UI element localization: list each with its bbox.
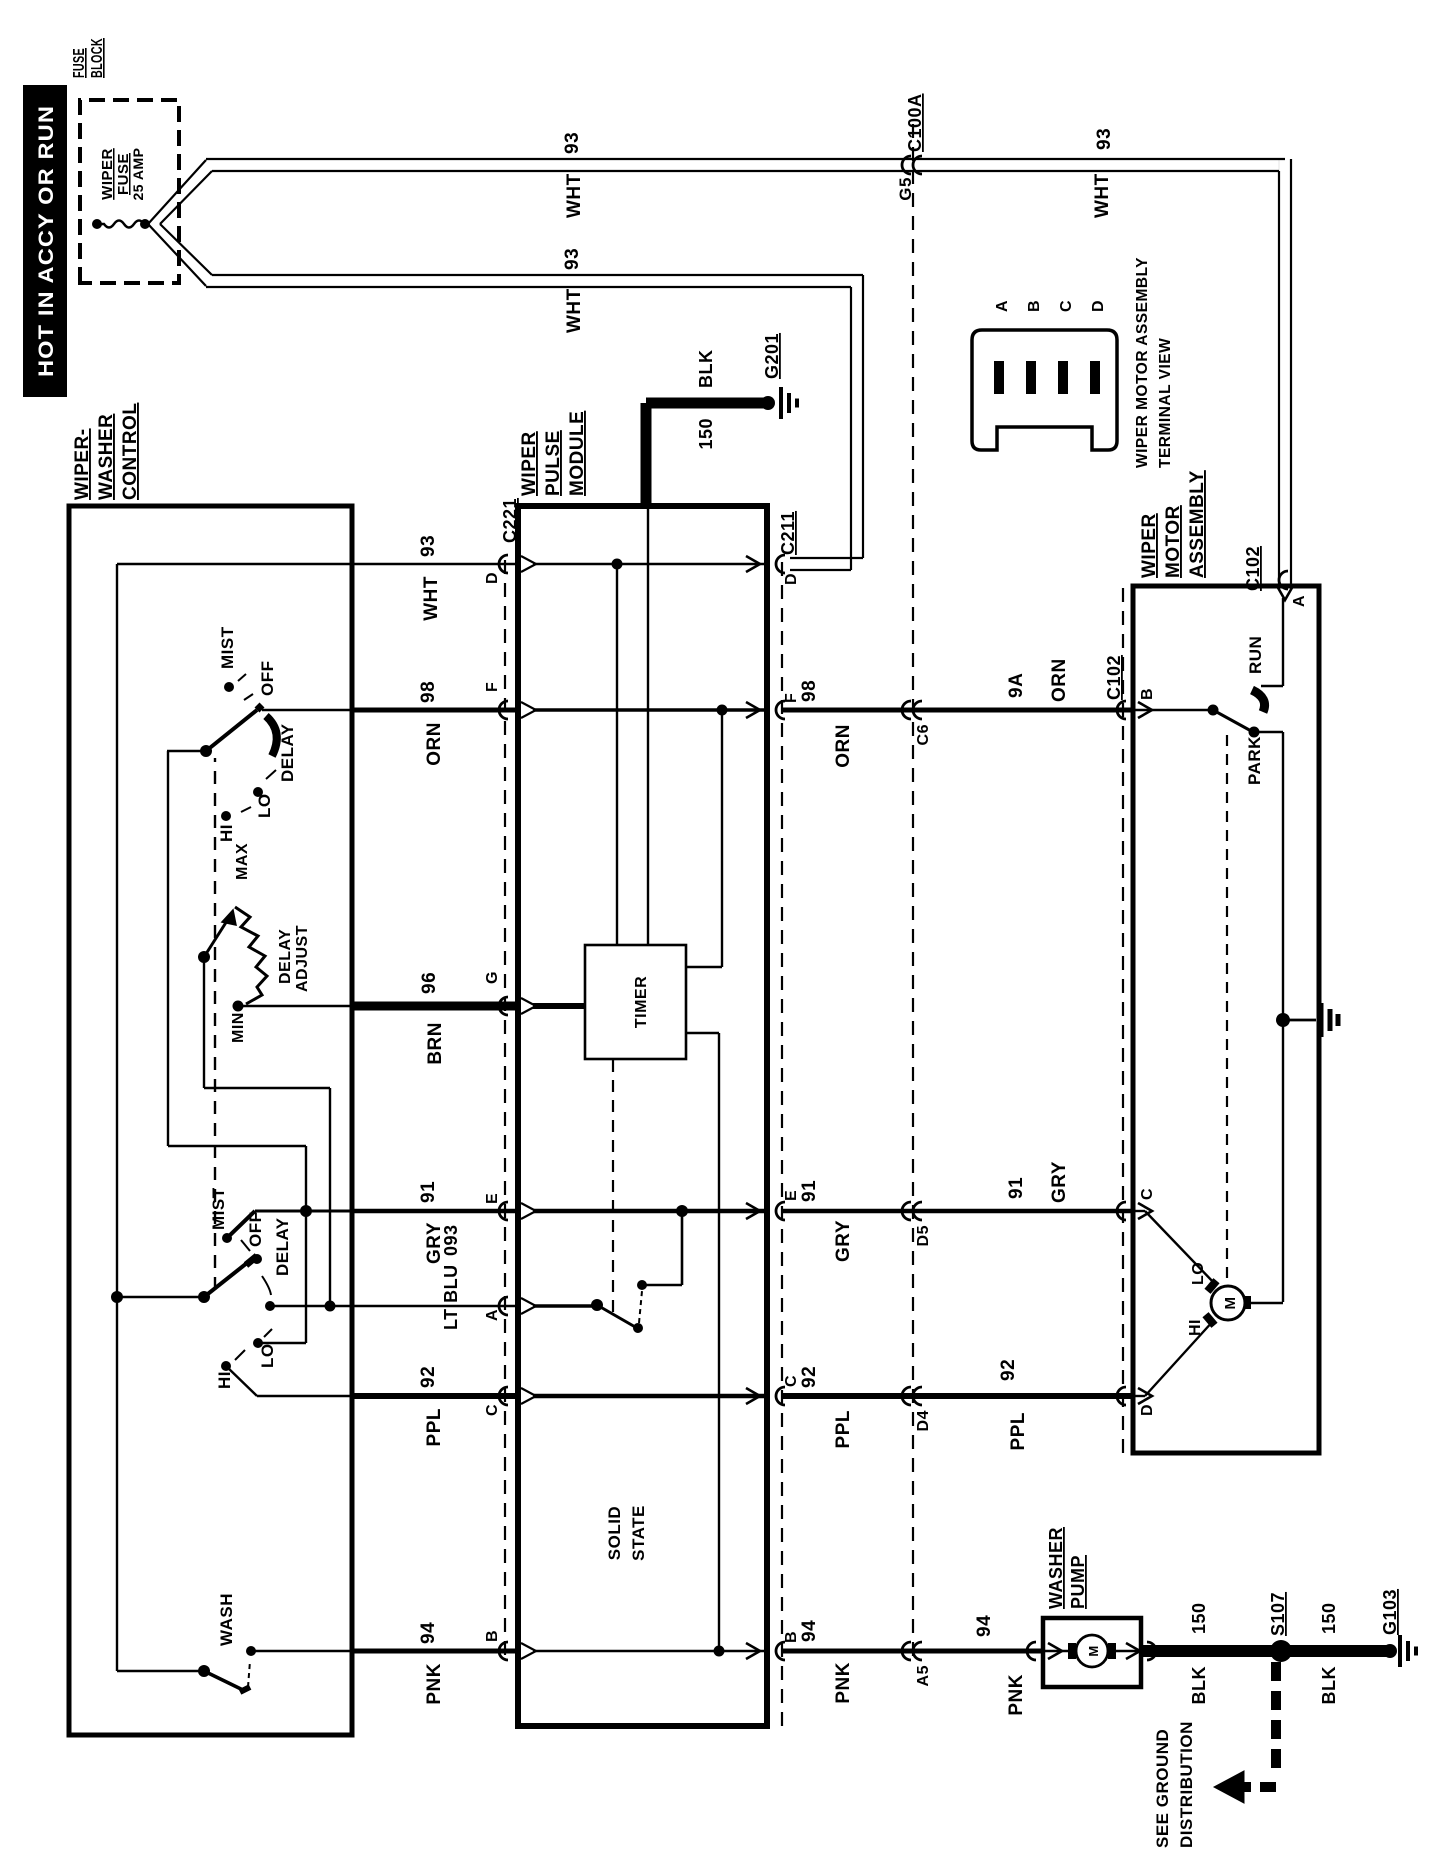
svg-text:G103: G103 (1380, 1589, 1400, 1635)
connector C100A terminal D5 (902, 1202, 932, 1246)
splice S107 (1268, 1592, 1292, 1662)
svg-text:SEE GROUND: SEE GROUND (1153, 1729, 1172, 1848)
svg-text:91: 91 (418, 1181, 439, 1203)
svg-text:ADJUST: ADJUST (294, 925, 311, 992)
switch S3 washer (198, 1593, 256, 1692)
svg-text:D: D (783, 573, 800, 585)
svg-text:C: C (1058, 300, 1075, 312)
svg-text:M: M (1222, 1297, 1239, 1310)
wire S2 MIST/LO to E output (255, 1146, 352, 1343)
svg-text:WHT: WHT (1092, 173, 1113, 218)
svg-text:PPL: PPL (833, 1410, 854, 1448)
switch S1 arm to OFF contact (206, 705, 262, 751)
connector C221 terminal A (484, 1297, 508, 1321)
connector C100A on WHT wire (G5) (896, 156, 922, 201)
switch S1 contact OFF label (244, 661, 277, 701)
terminal view slot letters (994, 300, 1107, 312)
svg-text:93: 93 (562, 132, 583, 154)
svg-text:BLK: BLK (1189, 1666, 1209, 1705)
terminal view slots A B C D (994, 361, 1100, 394)
node junction on feed bus for wiper switch (111, 1291, 204, 1303)
resistor R1 DELAY ADJUST (233, 907, 268, 1012)
svg-text:LO: LO (1190, 1262, 1207, 1285)
label 94 PNK lower (974, 1615, 1027, 1716)
connector C221 terminal C (484, 1387, 508, 1416)
connector C221 terminal E (484, 1193, 508, 1220)
svg-text:D5: D5 (915, 1225, 932, 1246)
svg-text:WASHER: WASHER (1046, 1527, 1066, 1609)
timer U1 (585, 945, 686, 1059)
svg-text:150: 150 (696, 418, 716, 450)
svg-text:PUMP: PUMP (1068, 1555, 1088, 1609)
fuse block dashed box (80, 100, 179, 283)
svg-text:DISTRIBUTION: DISTRIBUTION (1177, 1721, 1196, 1848)
label SOLID STATE (605, 1505, 648, 1561)
connector C102 terminal B (1117, 688, 1156, 719)
module input triangles (521, 556, 536, 1659)
wire 93 WHT feed to pulse module D via C211 (206, 275, 863, 570)
svg-text:C6: C6 (915, 724, 932, 745)
fuse F1 WIPER FUSE (92, 219, 150, 229)
wire 96 BRN control to module G (352, 1002, 518, 1011)
svg-text:98: 98 (418, 681, 439, 703)
svg-text:DELAY: DELAY (273, 1217, 292, 1276)
park switch PARK contact wire (1254, 732, 1283, 1302)
label WASHER PUMP (1046, 1527, 1088, 1609)
svg-text:CONTROL: CONTROL (120, 403, 141, 500)
svg-text:S107: S107 (1268, 1592, 1288, 1636)
label DELAY ADJUST (277, 925, 311, 992)
svg-text:MIST: MIST (218, 626, 237, 669)
wire 92 PPL control to module C (352, 1393, 518, 1399)
label GRY 91 (418, 1181, 445, 1264)
svg-text:WHT: WHT (564, 173, 585, 218)
label LT BLU 093 (441, 1224, 461, 1330)
label 98 ORN (799, 680, 854, 768)
svg-text:BLK: BLK (696, 350, 716, 389)
wire S2 HI to C output (226, 1366, 352, 1396)
module internal A net relay (533, 1291, 643, 1333)
svg-text:150: 150 (1189, 1602, 1209, 1634)
wire S3 WASH to B output (251, 1650, 352, 1652)
svg-text:150: 150 (1319, 1602, 1339, 1634)
label WIPER MOTOR ASSEMBLY TERMINAL VIEW (1134, 257, 1174, 468)
switch S1 contact DELAY (253, 723, 297, 797)
svg-text:MOTOR: MOTOR (1163, 505, 1184, 578)
svg-text:DELAY: DELAY (277, 929, 294, 984)
switch S2 contact LO (253, 1329, 277, 1368)
washer pump output connector arc (1147, 1642, 1156, 1660)
svg-text:92: 92 (998, 1359, 1019, 1381)
svg-text:SOLID: SOLID (605, 1506, 624, 1560)
label 92 PPL lower (998, 1359, 1029, 1451)
wire R1 wiper to DELAY contact of S2 (204, 957, 330, 1306)
svg-text:OFF: OFF (258, 661, 277, 697)
label 92 PPL (799, 1366, 854, 1449)
wire 150 BLK S107 to G103 (1281, 1645, 1390, 1657)
svg-text:C: C (1139, 1188, 1156, 1200)
svg-text:093: 093 (441, 1224, 461, 1256)
module internal B net (533, 1643, 764, 1659)
svg-text:WIPER: WIPER (519, 431, 540, 496)
banner HOT IN ACCY OR RUN (23, 85, 67, 397)
module internal E net (533, 1203, 764, 1290)
svg-text:91: 91 (799, 1180, 820, 1202)
label WHT 93 (418, 535, 442, 621)
svg-text:94: 94 (418, 1622, 439, 1644)
svg-text:92: 92 (799, 1366, 820, 1388)
svg-text:WIPER MOTOR ASSEMBLY: WIPER MOTOR ASSEMBLY (1134, 257, 1151, 468)
svg-text:WHT: WHT (421, 576, 442, 621)
svg-text:PULSE: PULSE (543, 430, 564, 496)
motor A feed wire inside (1261, 586, 1293, 686)
park switch RUN contact (1246, 636, 1265, 712)
svg-text:92: 92 (418, 1366, 439, 1388)
label ORN 98 (418, 681, 445, 766)
label 91 GRY lower (1006, 1161, 1070, 1203)
svg-text:C: C (783, 1375, 800, 1387)
module internal C net (533, 1388, 764, 1404)
connector C102 dashed line (1122, 586, 1124, 1453)
module timer drive wire to B (686, 1033, 719, 1651)
svg-text:WIPER-: WIPER- (72, 428, 93, 500)
wire 92 PPL module to C100A (782, 1393, 913, 1399)
wire OFF contact to F output (262, 709, 352, 711)
wire 92 PPL C100A to motor D (913, 1393, 1133, 1399)
wiper motor assembly box (1133, 586, 1319, 1453)
module wire timer to module edge (BLK) (647, 506, 649, 945)
connector C211 terminal B (776, 1631, 800, 1660)
connector C221 terminal F (484, 682, 508, 719)
switch S2 contact DELAY (262, 1217, 292, 1311)
connector C211 terminal C (776, 1375, 800, 1405)
svg-text:E: E (484, 1193, 501, 1204)
svg-text:MODULE: MODULE (567, 411, 588, 496)
motor M1 wiper motor (1202, 1278, 1283, 1328)
switch S2 contact OFF (241, 1212, 265, 1265)
svg-text:E: E (783, 1190, 800, 1201)
svg-text:LO: LO (255, 793, 274, 818)
svg-text:A5: A5 (915, 1665, 932, 1686)
washer pump box (1043, 1618, 1141, 1687)
switch S1 contact HI (217, 824, 236, 842)
svg-text:GRY: GRY (1049, 1161, 1070, 1203)
svg-text:PNK: PNK (833, 1662, 854, 1704)
svg-text:A: A (484, 1309, 501, 1321)
svg-text:M: M (1086, 1645, 1101, 1656)
label 150 BLK lower (1319, 1602, 1339, 1704)
svg-text:D4: D4 (915, 1410, 932, 1431)
svg-text:98: 98 (799, 680, 820, 702)
ground motor case (1321, 1003, 1338, 1037)
wire 91 GRY module to C100A (782, 1209, 913, 1214)
svg-text:A: A (1291, 595, 1308, 607)
label 9A ORN (1006, 658, 1070, 702)
label 150 BLK upper (1189, 1602, 1209, 1704)
svg-text:GRY: GRY (833, 1220, 854, 1262)
svg-text:RUN: RUN (1246, 636, 1265, 674)
module relay dashed link to timer (612, 1059, 614, 1312)
switch S1 wiper mode (upper) pivot (167, 745, 306, 1146)
svg-text:WHT: WHT (564, 288, 585, 333)
label WIPER MOTOR ASSEMBLY (1139, 470, 1208, 578)
connector C221 terminal D (484, 555, 508, 584)
wire 94 PNK control to module B (352, 1649, 518, 1654)
connector C100A terminal A5 (902, 1642, 932, 1686)
connector C102 terminal A (1243, 546, 1308, 607)
svg-text:G: G (484, 971, 501, 984)
label 91 GRY (799, 1180, 854, 1262)
wire 94 PNK module to C100A (782, 1649, 913, 1654)
motor D wire to HI brush (1133, 1320, 1214, 1404)
switch S2 contact HI (215, 1350, 245, 1389)
svg-text:MIST: MIST (209, 1187, 228, 1230)
connector C102 terminal D (1117, 1387, 1156, 1416)
svg-text:B: B (1026, 300, 1043, 312)
label 93 WHT lower (1092, 128, 1115, 218)
module internal D net (533, 556, 764, 945)
wire S2 DELAY to A output (270, 1301, 352, 1312)
label WIPER PULSE MODULE (519, 411, 588, 496)
connector C221 terminal G (484, 971, 508, 1015)
svg-text:ORN: ORN (833, 724, 854, 768)
module internal G net into timer (533, 1003, 585, 1009)
svg-text:LO: LO (258, 1343, 277, 1368)
svg-text:TERMINAL VIEW: TERMINAL VIEW (1157, 338, 1174, 468)
svg-text:B: B (1139, 688, 1156, 700)
wire R1 MIN to G output (238, 1005, 352, 1007)
resistor R1 wiper arm (198, 910, 236, 963)
svg-text:PPL: PPL (1008, 1412, 1029, 1450)
switch S1 travel arc (266, 716, 277, 756)
svg-text:HOT IN ACCY OR RUN: HOT IN ACCY OR RUN (35, 105, 58, 377)
wire 93 WHT feed to wiper motor A (206, 159, 1291, 588)
wire 98 ORN module to C100A (782, 708, 913, 713)
svg-text:91: 91 (1006, 1177, 1027, 1199)
connector C211 terminal F (776, 693, 800, 719)
svg-text:9A: 9A (1006, 673, 1027, 698)
svg-text:F: F (484, 682, 501, 692)
svg-text:D: D (1090, 300, 1107, 312)
svg-text:WIPER: WIPER (1139, 513, 1160, 578)
svg-text:WIPER: WIPER (99, 148, 116, 200)
switch S2 contact MIST (209, 1187, 255, 1243)
svg-text:BLOCK: BLOCK (89, 38, 106, 78)
washer pump motor M2 (1043, 1635, 1141, 1667)
svg-text:OFF: OFF (246, 1212, 265, 1248)
svg-text:93: 93 (562, 248, 583, 270)
wire 150 BLK module to G201 (646, 403, 768, 506)
svg-text:MAX: MAX (234, 843, 251, 880)
wiper motor assembly terminal view connector drawing (972, 330, 1117, 450)
svg-text:PNK: PNK (424, 1663, 445, 1705)
wire 9A ORN C100A to motor B (913, 708, 1133, 713)
switch S2 wiper speed (lower) pivot (198, 1256, 257, 1303)
connector C100A dashed line (912, 116, 914, 1656)
svg-text:MIN: MIN (230, 1012, 247, 1043)
wire 93 WHT control to module D (352, 563, 518, 565)
svg-text:D: D (1139, 1404, 1156, 1416)
svg-text:F: F (783, 693, 800, 703)
svg-text:G201: G201 (762, 333, 782, 379)
connector C211 terminal D (776, 555, 800, 585)
svg-text:D: D (484, 572, 501, 584)
svg-text:PARK: PARK (1245, 736, 1264, 785)
wire 91 GRY control to module E (352, 1209, 518, 1214)
connector C221 dashed line (504, 558, 506, 1655)
module internal F net (533, 702, 764, 967)
svg-text:PNK: PNK (1006, 1674, 1027, 1716)
wire 93 WHT fuse output wedge (148, 160, 212, 286)
mechanical link dashed S1 to S2 (214, 758, 216, 1290)
svg-text:BLK: BLK (1319, 1666, 1339, 1705)
svg-text:96: 96 (419, 972, 440, 994)
svg-text:HI: HI (217, 824, 236, 842)
connector C211 terminal E (776, 1190, 800, 1220)
svg-text:C: C (484, 1404, 501, 1416)
washer pump input connector arc (1027, 1642, 1036, 1660)
wire 91 GRY C100A to motor C (913, 1209, 1133, 1214)
wire 150 BLK pump to S107 (1141, 1645, 1281, 1657)
svg-text:WASHER: WASHER (96, 414, 117, 500)
svg-text:C211: C211 (778, 511, 798, 555)
motor C wire to LO brush (1133, 1203, 1216, 1285)
svg-text:25 AMP: 25 AMP (130, 147, 146, 200)
switch S1 contact MIST (218, 626, 246, 692)
label PNK 94 (418, 1622, 445, 1705)
svg-text:C102: C102 (1104, 655, 1124, 700)
svg-text:BRN: BRN (425, 1022, 446, 1065)
connector C100A terminal D4 (902, 1387, 932, 1431)
switch S1 contact LO (221, 793, 274, 821)
label BRN 96 (419, 972, 446, 1065)
connector C211 dashed line (781, 562, 783, 1726)
ground G201 (761, 387, 797, 419)
connector C100A terminal C6 (902, 701, 932, 745)
connector C221 terminal B (484, 1630, 508, 1660)
label 93 WHT left run (562, 248, 585, 333)
label 94 PNK (799, 1620, 854, 1704)
connector C102 terminal C (1117, 1188, 1156, 1220)
label FUSE BLOCK (71, 38, 106, 78)
svg-text:LT BLU: LT BLU (441, 1264, 461, 1330)
svg-text:C100A: C100A (905, 93, 925, 152)
svg-text:B: B (783, 1631, 800, 1643)
motor ground node (1276, 1013, 1316, 1027)
svg-text:ASSEMBLY: ASSEMBLY (1187, 470, 1208, 578)
wiper pulse module box (518, 506, 767, 1726)
svg-text:WASH: WASH (217, 1593, 236, 1646)
svg-text:HI: HI (215, 1371, 234, 1389)
label SEE GROUND DISTRIBUTION (1153, 1721, 1196, 1848)
wire 94 PNK C100A to washer pump (913, 1649, 1043, 1654)
svg-text:PPL: PPL (424, 1408, 445, 1446)
svg-text:ORN: ORN (424, 722, 445, 766)
wire WHT feed bus inside control (117, 564, 352, 1671)
wire dashed to ground distribution (1214, 1662, 1276, 1803)
svg-text:A: A (994, 300, 1011, 312)
svg-text:B: B (484, 1630, 501, 1642)
svg-text:HI: HI (1187, 1319, 1204, 1336)
label 93 WHT upper (562, 132, 585, 218)
wire LT BLU control to module A (352, 1305, 518, 1307)
svg-text:ORN: ORN (1049, 658, 1070, 702)
mechanical link dashed park switch to motor (1226, 728, 1228, 1278)
wiper-washer control box (69, 506, 352, 1735)
svg-text:TIMER: TIMER (633, 976, 650, 1028)
wire 98 ORN control to module F (352, 708, 518, 713)
svg-text:94: 94 (974, 1615, 995, 1637)
svg-text:93: 93 (418, 535, 439, 557)
svg-text:FUSE: FUSE (71, 48, 88, 78)
svg-text:93: 93 (1094, 128, 1115, 150)
ground G103 (1380, 1589, 1416, 1667)
label PPL 92 (418, 1366, 445, 1447)
svg-text:94: 94 (799, 1620, 820, 1642)
label WIPER-WASHER CONTROL (72, 403, 141, 500)
svg-text:DELAY: DELAY (278, 723, 297, 782)
svg-text:STATE: STATE (629, 1505, 648, 1561)
label WIPER FUSE 25 AMP (99, 147, 146, 200)
park switch arm from B (1133, 702, 1264, 785)
